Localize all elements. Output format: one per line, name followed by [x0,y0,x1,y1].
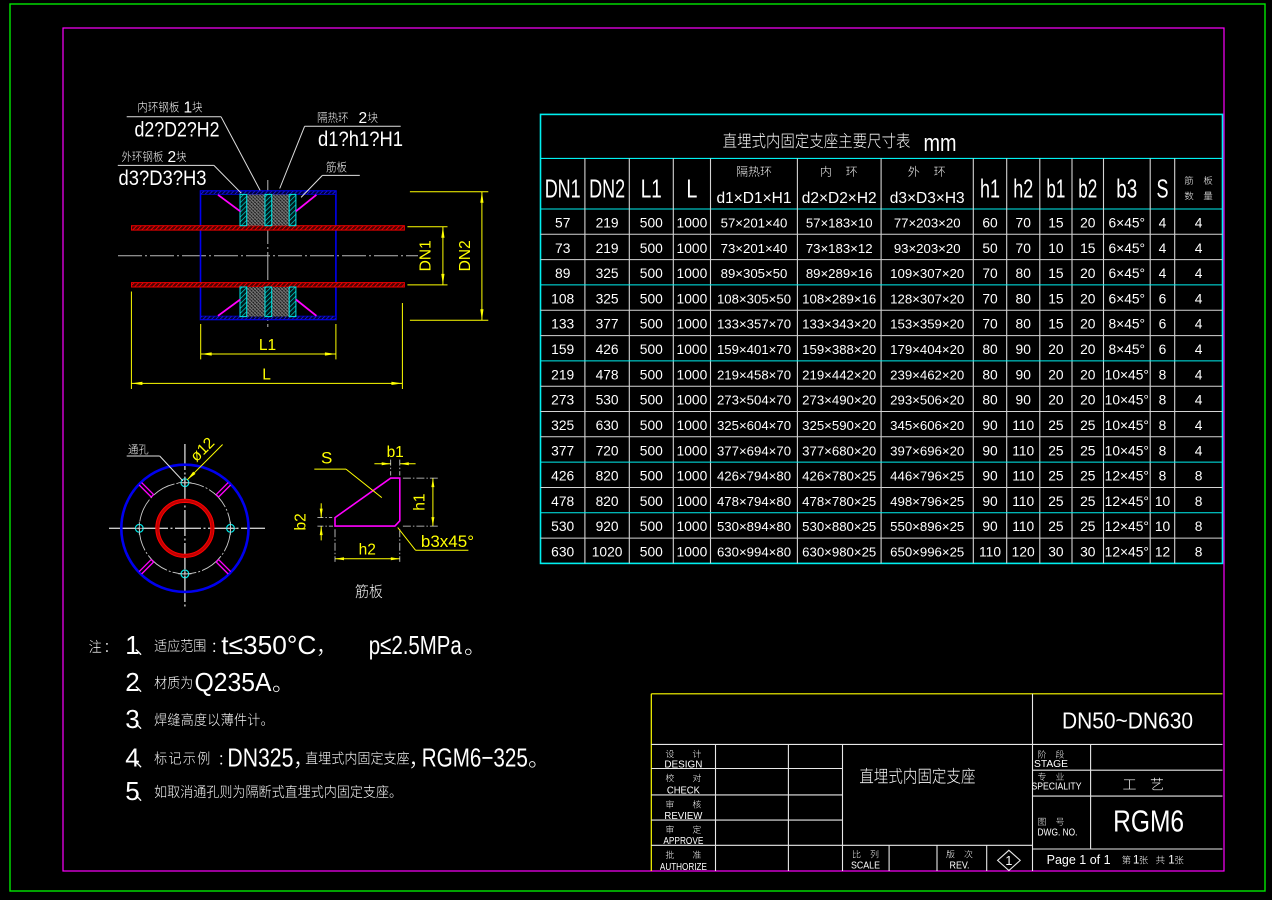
svg-text:8: 8 [1195,519,1203,534]
svg-text:8: 8 [1159,443,1167,458]
svg-text:3: 3 [125,704,139,734]
dimension DN2 [410,191,488,193]
svg-text:219: 219 [596,216,619,231]
detail caption 筋板 [356,584,383,598]
svg-text:1: 1 [1133,855,1139,867]
svg-text:10: 10 [1155,494,1171,509]
svg-text:426×794×80: 426×794×80 [717,469,791,484]
rib plates magenta (end view) [216,562,228,574]
svg-text:6×45°: 6×45° [1108,216,1145,231]
svg-text:STAGE: STAGE [1034,759,1068,770]
svg-text:mm: mm [924,130,957,157]
svg-text:d2?D2?H2: d2?D2?H2 [135,118,220,142]
svg-text:8: 8 [1195,494,1203,509]
svg-text:SPECIALITY: SPECIALITY [1032,781,1082,792]
svg-text:500: 500 [640,418,663,433]
svg-text:50: 50 [982,241,998,256]
svg-text:80: 80 [1016,317,1032,332]
svg-text:108: 108 [551,291,574,306]
svg-text:108×305×50: 108×305×50 [717,291,791,306]
svg-text:b3: b3 [1116,174,1137,204]
svg-text:h1: h1 [980,174,1000,204]
svg-text:550×896×25: 550×896×25 [890,519,964,534]
svg-text:133×343×20: 133×343×20 [802,317,876,332]
svg-text:325×590×20: 325×590×20 [802,418,876,433]
svg-text:d1×D1×H1: d1×D1×H1 [717,190,792,207]
svg-text:920: 920 [596,519,619,534]
insulation ring blocks top (gray hatch) [247,194,265,225]
steel ring plates top (cyan hatched strips) [240,194,247,225]
svg-text:73×183×12: 73×183×12 [806,241,873,256]
svg-text:6: 6 [1159,291,1167,306]
svg-text:p≤2.5MPa: p≤2.5MPa [369,630,462,660]
svg-text:219×458×70: 219×458×70 [717,367,791,382]
svg-text:DN2: DN2 [589,174,625,204]
svg-text:530×894×80: 530×894×80 [717,519,791,534]
svg-text:80: 80 [1016,266,1032,281]
svg-text:8: 8 [1159,367,1167,382]
callout inner ring plate label [139,101,179,112]
carrier pipe bottom wall (red hatched) [132,283,405,287]
svg-text:57: 57 [555,216,570,231]
svg-text:8: 8 [1195,545,1203,560]
dimension L [130,292,132,390]
detail dimension h1 [432,478,434,526]
svg-text:2: 2 [359,110,368,127]
svg-text:500: 500 [640,241,663,256]
svg-text:10: 10 [1155,519,1171,534]
svg-text:108×289×16: 108×289×16 [802,291,876,306]
svg-text:t≤350°C: t≤350°C [221,630,316,660]
svg-text:L: L [262,367,271,384]
svg-text:d3×D3×H3: d3×D3×H3 [890,190,965,207]
svg-text:377×694×70: 377×694×70 [717,443,791,458]
svg-text:89×289×16: 89×289×16 [806,266,873,281]
svg-text:4: 4 [1195,291,1203,306]
carrier pipe top wall (red hatched) [132,226,405,230]
svg-text:273×490×20: 273×490×20 [802,393,876,408]
svg-text:1000: 1000 [677,393,708,408]
svg-text:h2: h2 [359,542,376,559]
title block top edge (yellow) [651,693,1222,695]
title block stage label [1038,750,1064,758]
svg-text:60: 60 [982,216,998,231]
insulation ring blocks bottom (gray hatch) [247,287,265,317]
svg-text:ø12: ø12 [187,434,218,465]
svg-text:500: 500 [640,367,663,382]
carrier pipe red circle [157,501,212,556]
svg-text:5: 5 [125,776,139,806]
svg-text:426: 426 [551,469,574,484]
svg-text:110: 110 [979,545,1001,560]
flange outer casing blue circle [121,465,248,592]
svg-text:1000: 1000 [677,519,708,534]
svg-text:1000: 1000 [677,342,708,357]
svg-text:RGM6−325: RGM6−325 [422,743,528,773]
svg-text:RGM6: RGM6 [1113,804,1184,839]
title block speciality label [1038,772,1064,780]
svg-text:b3x45°: b3x45° [421,532,474,551]
svg-text:DN325: DN325 [227,743,293,773]
svg-text:530: 530 [596,393,619,408]
svg-text:10×45°: 10×45° [1105,418,1149,433]
svg-text:426×780×25: 426×780×25 [802,469,876,484]
svg-text:500: 500 [640,494,663,509]
svg-text:20: 20 [1080,266,1096,281]
svg-text:25: 25 [1048,418,1064,433]
svg-text:APPROVE: APPROVE [663,836,703,847]
svg-text:70: 70 [1016,216,1032,231]
svg-text:109×307×20: 109×307×20 [890,266,964,281]
svg-text:12×45°: 12×45° [1105,545,1149,560]
svg-text:8: 8 [1159,393,1167,408]
svg-text:1000: 1000 [677,291,708,306]
svg-text:239×462×20: 239×462×20 [890,367,964,382]
svg-text:630×994×80: 630×994×80 [717,545,791,560]
svg-text:Page 1 of 1: Page 1 of 1 [1047,853,1111,867]
svg-text:6: 6 [1159,342,1167,357]
svg-text:b2: b2 [1078,174,1097,204]
svg-text:Q235A: Q235A [195,667,273,697]
svg-text:2: 2 [168,149,177,166]
outer casing blue rectangle [201,191,336,320]
svg-text:10×45°: 10×45° [1105,367,1149,382]
svg-text:h1: h1 [412,493,429,510]
svg-text:b1: b1 [387,444,404,461]
svg-text:4: 4 [1195,393,1203,408]
svg-text:345×606×20: 345×606×20 [890,418,964,433]
main view horizontal centerline [118,255,418,257]
svg-text:AUTHORIZE: AUTHORIZE [660,862,707,873]
svg-text:820: 820 [596,494,619,509]
svg-text:6×45°: 6×45° [1108,266,1145,281]
svg-text:70: 70 [982,317,998,332]
svg-text:REVIEW: REVIEW [664,811,703,822]
svg-text:500: 500 [640,342,663,357]
svg-text:1000: 1000 [677,443,708,458]
notes 注： line 1 [89,640,107,653]
svg-text:90: 90 [982,443,998,458]
svg-text:397×696×20: 397×696×20 [890,443,964,458]
svg-text:4: 4 [1195,418,1203,433]
svg-text:12×45°: 12×45° [1105,469,1149,484]
svg-text:DWG. NO.: DWG. NO. [1038,828,1078,839]
svg-text:500: 500 [640,469,663,484]
svg-text:500: 500 [640,393,663,408]
svg-text:500: 500 [640,545,663,560]
svg-text:120: 120 [1012,545,1035,560]
svg-text:1000: 1000 [677,241,708,256]
svg-text:1000: 1000 [677,367,708,382]
svg-text:820: 820 [596,469,619,484]
svg-text:4: 4 [1195,443,1203,458]
svg-text:10×45°: 10×45° [1105,443,1149,458]
svg-text:720: 720 [596,443,619,458]
svg-text:530×880×25: 530×880×25 [802,519,876,534]
svg-text:d3?D3?H3: d3?D3?H3 [119,166,207,190]
svg-text:6×45°: 6×45° [1108,291,1145,306]
svg-text:8: 8 [1195,469,1203,484]
svg-text:4: 4 [1195,342,1203,357]
svg-text:93×203×20: 93×203×20 [894,241,961,256]
rib plate profile (magenta polygon) [335,478,400,526]
svg-text:89×305×50: 89×305×50 [721,266,788,281]
svg-text:630×980×25: 630×980×25 [802,545,876,560]
svg-text:70: 70 [982,266,998,281]
svg-text:500: 500 [640,443,663,458]
detail dimension h2 [335,558,400,560]
svg-text:SCALE: SCALE [851,860,880,871]
svg-text:70: 70 [1016,241,1032,256]
svg-text:25: 25 [1080,443,1096,458]
bolt holes cyan with crosshairs [181,479,189,487]
svg-text:446×796×25: 446×796×25 [890,469,964,484]
svg-text:159×401×70: 159×401×70 [717,342,791,357]
main view vertical centerline [267,180,269,327]
svg-text:20: 20 [1080,342,1096,357]
svg-text:b1: b1 [1046,174,1065,204]
svg-text:S: S [1157,174,1169,204]
svg-text:20: 20 [1080,317,1096,332]
callout insulation ring label [318,112,348,123]
svg-text:12: 12 [1155,545,1170,560]
svg-text:159: 159 [551,342,574,357]
svg-text:1000: 1000 [677,266,708,281]
svg-text:90: 90 [1016,367,1032,382]
svg-text:25: 25 [1080,469,1096,484]
svg-text:500: 500 [640,291,663,306]
svg-text:20: 20 [1048,367,1064,382]
table row lines [541,233,1223,235]
svg-text:25: 25 [1080,418,1096,433]
table header bottom line [541,208,1223,210]
svg-text:DN1: DN1 [545,174,581,204]
svg-text:8×45°: 8×45° [1108,342,1145,357]
svg-text:8×45°: 8×45° [1108,317,1145,332]
svg-text:15: 15 [1048,317,1064,332]
svg-text:4: 4 [1195,266,1203,281]
title block dwg no label [1038,818,1064,826]
svg-text:30: 30 [1048,545,1064,560]
svg-text:1: 1 [125,630,139,660]
svg-text:630: 630 [596,418,619,433]
svg-text:478×780×25: 478×780×25 [802,494,876,509]
svg-text:25: 25 [1080,519,1096,534]
svg-text:8: 8 [1159,469,1167,484]
svg-text:4: 4 [1159,266,1167,281]
svg-text:325: 325 [596,266,619,281]
svg-text:15: 15 [1048,266,1064,281]
svg-text:h2: h2 [1013,174,1033,204]
svg-text:630: 630 [551,545,574,560]
title block vertical lines [715,744,717,871]
svg-text:8: 8 [1159,418,1167,433]
svg-text:73×201×40: 73×201×40 [721,241,788,256]
svg-text:57×183×10: 57×183×10 [806,216,873,231]
svg-text:159×388×20: 159×388×20 [802,342,876,357]
svg-text:15: 15 [1080,241,1096,256]
svg-text:DN2: DN2 [457,240,474,271]
svg-text:57×201×40: 57×201×40 [721,216,788,231]
svg-text:2: 2 [125,667,139,697]
svg-text:10×45°: 10×45° [1105,393,1149,408]
title block signature labels [666,750,701,758]
title block left edge yellow [650,694,652,871]
svg-text:219: 219 [596,241,619,256]
svg-text:90: 90 [1016,393,1032,408]
svg-text:12×45°: 12×45° [1105,519,1149,534]
svg-text:L1: L1 [641,174,662,204]
svg-text:90: 90 [982,494,998,509]
svg-text:1000: 1000 [677,545,708,560]
svg-text:80: 80 [982,367,998,382]
svg-text:377×680×20: 377×680×20 [802,443,876,458]
svg-text:12×45°: 12×45° [1105,494,1149,509]
table outer border cyan [541,114,1223,563]
svg-text:20: 20 [1080,367,1096,382]
svg-text:20: 20 [1080,393,1096,408]
svg-text:478: 478 [551,494,574,509]
svg-text:4: 4 [1195,216,1203,231]
svg-text:25: 25 [1048,469,1064,484]
title block rev label [946,850,972,858]
svg-text:325×604×70: 325×604×70 [717,418,791,433]
svg-text:DN50~DN630: DN50~DN630 [1062,708,1193,734]
table column lines [584,158,586,563]
callout rib plate label [326,161,346,172]
svg-text:80: 80 [1016,291,1032,306]
svg-text:4: 4 [125,743,139,773]
table title text [723,133,910,149]
svg-text:110: 110 [1012,469,1034,484]
svg-text:4: 4 [1159,241,1167,256]
svg-text:273: 273 [551,393,574,408]
svg-text:30: 30 [1080,545,1096,560]
svg-text:219: 219 [551,367,574,382]
svg-text:d1?h1?H1: d1?h1?H1 [318,127,403,151]
svg-text:CHECK: CHECK [667,786,700,797]
rib plates magenta (section view) [218,195,240,212]
svg-text:20: 20 [1048,393,1064,408]
svg-text:S: S [321,449,332,468]
svg-text:500: 500 [640,519,663,534]
dimension L1 [200,324,202,359]
svg-text:25: 25 [1048,443,1064,458]
svg-text:89: 89 [555,266,571,281]
svg-text:219×442×20: 219×442×20 [802,367,876,382]
bolt circle (white) [139,483,230,574]
svg-text:15: 15 [1048,216,1064,231]
svg-text:DN1: DN1 [418,240,435,271]
svg-text:325: 325 [596,291,619,306]
svg-text:20: 20 [1080,216,1096,231]
svg-text:90: 90 [982,469,998,484]
svg-text:L: L [686,174,697,204]
svg-text:1000: 1000 [677,494,708,509]
svg-text:1000: 1000 [677,469,708,484]
svg-text:90: 90 [1016,342,1032,357]
svg-text:1: 1 [1005,854,1012,868]
casing top wall hatched band [201,191,336,194]
svg-text:377: 377 [551,443,574,458]
svg-text:377: 377 [596,317,619,332]
svg-text:478: 478 [596,367,619,382]
svg-text:426: 426 [596,342,619,357]
svg-text:20: 20 [1080,291,1096,306]
svg-text:80: 80 [982,342,998,357]
svg-text:70: 70 [982,291,998,306]
label hole diameter ø12 [187,445,222,480]
svg-text:1: 1 [184,100,193,117]
svg-text:d2×D2×H2: d2×D2×H2 [802,190,877,207]
flange view centerlines [109,527,265,529]
svg-text:133×357×70: 133×357×70 [717,317,791,332]
svg-text:1000: 1000 [677,317,708,332]
svg-text:128×307×20: 128×307×20 [890,291,964,306]
svg-text:1: 1 [1168,855,1174,867]
svg-text:500: 500 [640,317,663,332]
svg-text:293×506×20: 293×506×20 [890,393,964,408]
svg-text:73: 73 [555,241,571,256]
casing bottom wall hatched band [201,316,336,319]
title block scale label [853,850,878,858]
svg-text:110: 110 [1012,494,1034,509]
svg-text:6: 6 [1159,317,1167,332]
svg-text:478×794×80: 478×794×80 [717,494,791,509]
svg-text:25: 25 [1080,494,1096,509]
svg-text:325: 325 [551,418,574,433]
svg-text:498×796×25: 498×796×25 [890,494,964,509]
title block drawing name 直埋式内固定支座 [860,768,975,784]
svg-text:90: 90 [982,418,998,433]
title block horizontal lines [651,743,1222,745]
svg-text:20: 20 [1048,342,1064,357]
svg-text:80: 80 [982,393,998,408]
svg-text:15: 15 [1048,291,1064,306]
svg-text:1000: 1000 [677,418,708,433]
steel ring plates bottom (cyan hatched strips) [240,287,247,317]
svg-text:530: 530 [551,519,574,534]
svg-text:500: 500 [640,266,663,281]
svg-text:REV.: REV. [950,860,970,871]
svg-text:110: 110 [1012,519,1034,534]
svg-text:133: 133 [551,317,574,332]
svg-text:DESIGN: DESIGN [664,759,702,770]
svg-text:110: 110 [1012,418,1034,433]
callout outer ring plate label [122,151,163,162]
svg-text:25: 25 [1048,494,1064,509]
svg-text:25: 25 [1048,519,1064,534]
svg-text:10: 10 [1048,241,1064,256]
svg-text:90: 90 [982,519,998,534]
svg-text:77×203×20: 77×203×20 [894,216,961,231]
svg-text:650×996×25: 650×996×25 [890,545,964,560]
svg-text:L1: L1 [259,337,276,354]
svg-text:153×359×20: 153×359×20 [890,317,964,332]
table title separator [541,157,1223,159]
svg-text:6×45°: 6×45° [1108,241,1145,256]
svg-text:500: 500 [640,216,663,231]
title block speciality value 工艺 [1123,779,1135,789]
svg-text:110: 110 [1012,443,1034,458]
svg-text:b2: b2 [293,513,310,530]
svg-text:1000: 1000 [677,216,708,231]
svg-text:1020: 1020 [592,545,623,560]
dimension DN1 [407,226,447,228]
svg-text:179×404×20: 179×404×20 [890,342,964,357]
title block revision diamond [998,850,1021,870]
svg-text:4: 4 [1195,317,1203,332]
